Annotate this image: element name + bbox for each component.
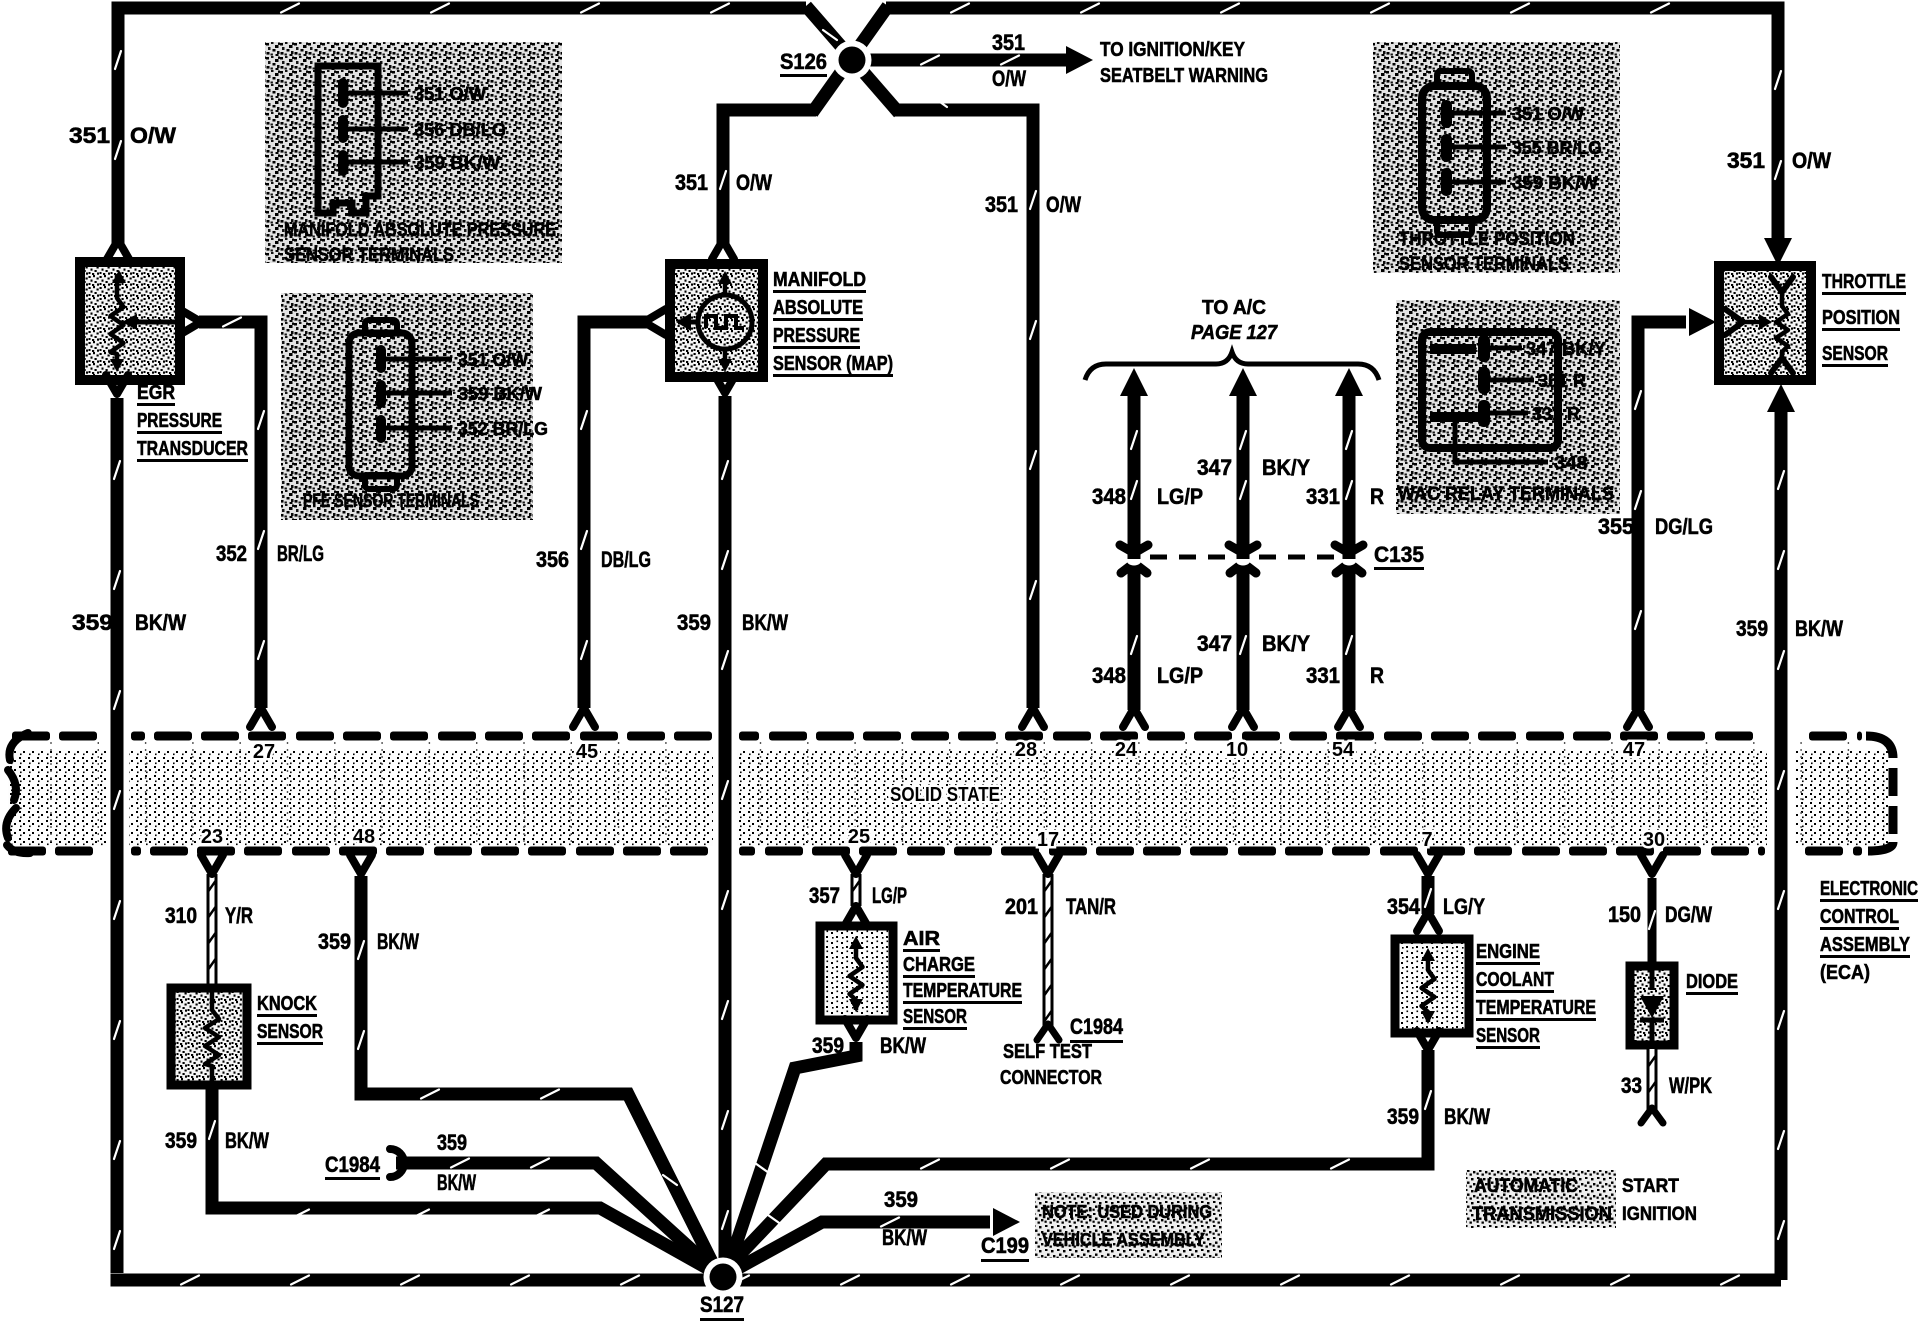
WAC relay labels: [1526, 339, 1606, 473]
svg-text:28: 28: [1015, 739, 1037, 761]
labels 359 BK/W pin48 wire: [318, 929, 419, 954]
engine coolant temperature sensor box: [1395, 939, 1469, 1033]
arrowhead 351 into TPS top: [1764, 238, 1792, 266]
svg-text:351 O/W: 351 O/W: [1512, 104, 1584, 124]
fork 354 at ECT sensor top: [1417, 912, 1439, 931]
svg-text:359: 359: [812, 1033, 844, 1058]
svg-text:331: 331: [1306, 663, 1340, 688]
wire 351 from S126 down to ECA pin 28: [895, 97, 1036, 708]
svg-text:S126: S126: [780, 49, 827, 74]
label START IGNITION: [1622, 1176, 1697, 1225]
ECA band left break: [6, 733, 30, 853]
labels 348 LG/P upper: [1092, 484, 1203, 509]
svg-text:W/PK: W/PK: [1669, 1073, 1712, 1098]
wire 348 to A/C (up arrow): [1131, 396, 1137, 710]
svg-text:LG/P: LG/P: [872, 883, 907, 908]
label TO A/C PAGE 127: [1191, 297, 1278, 344]
svg-text:359: 359: [1736, 616, 1768, 641]
svg-text:SOLID STATE: SOLID STATE: [890, 784, 1000, 806]
svg-text:C1984: C1984: [325, 1152, 381, 1177]
wire 351 from S126 to MAP sensor: [720, 110, 816, 244]
wire 357 air charge temp (thin): [853, 874, 860, 906]
svg-text:PRESSURE: PRESSURE: [773, 325, 860, 347]
svg-text:SENSOR TERMINALS: SENSOR TERMINALS: [1399, 254, 1569, 275]
svg-text:THROTTLE POSITION: THROTTLE POSITION: [1399, 229, 1575, 250]
note box: USED DURING VEHICLE ASSEMBLY: [1035, 1192, 1222, 1258]
svg-text:BK/W: BK/W: [225, 1128, 269, 1153]
svg-text:DIODE: DIODE: [1686, 971, 1738, 993]
labels 359 BK/W MAP wire: [677, 610, 788, 635]
svg-text:SENSOR: SENSOR: [1476, 1025, 1540, 1047]
wire 359 from TPS bottom through ECA to bottom bus: [1778, 410, 1784, 1280]
labels 359 BK/W at ACT: [812, 1033, 926, 1058]
svg-text:PFE SENSOR TERMINALS: PFE SENSOR TERMINALS: [303, 491, 479, 512]
svg-text:359 BK/W: 359 BK/W: [1512, 173, 1598, 193]
labels 351 O/W pin28 wire: [985, 192, 1081, 217]
svg-text:C135: C135: [1374, 542, 1424, 567]
svg-text:NOTE: USED DURING: NOTE: USED DURING: [1042, 1202, 1212, 1222]
S126 X crossing wires: [806, 6, 899, 113]
svg-text:Y/R: Y/R: [225, 903, 253, 928]
wire 359 from ECT sensor to S127: [729, 1050, 1431, 1266]
svg-text:LG/Y: LG/Y: [1443, 894, 1485, 919]
label KNOCK SENSOR: [257, 993, 323, 1045]
svg-text:THROTTLE: THROTTLE: [1822, 271, 1906, 293]
fork at MAP left: [644, 309, 666, 335]
svg-text:331 R: 331 R: [1532, 404, 1580, 424]
wire 352 from EGR to ECA pin 27: [199, 318, 264, 709]
svg-text:25: 25: [848, 826, 870, 848]
svg-text:MANIFOLD ABSOLUTE PRESSURE: MANIFOLD ABSOLUTE PRESSURE: [284, 220, 556, 241]
wire 351 top bus right segment with corner down to TPS: [886, 4, 1781, 241]
wire 359 EGR to bottom bus and bus to S127/right corner: [111, 398, 1782, 1285]
fork at pin 24: [1123, 708, 1145, 727]
ECA band vertical seam dots: [51, 742, 1848, 847]
inset: WAC relay terminals box: [1396, 300, 1620, 514]
caption MANIFOLD ABSOLUTE PRESSURE SENSOR TERMINALS: [284, 220, 556, 266]
wire 201 self test connector (thin): [1045, 874, 1052, 1026]
svg-text:COOLANT: COOLANT: [1476, 969, 1554, 991]
labels 331 R upper: [1306, 484, 1384, 509]
labels 347 BK/Y upper: [1197, 455, 1310, 480]
manifold absolute pressure sensor (MAP) box: [670, 264, 763, 377]
svg-text:TO IGNITION/KEY: TO IGNITION/KEY: [1100, 39, 1246, 61]
svg-text:352: 352: [216, 541, 247, 566]
svg-text:MANIFOLD: MANIFOLD: [773, 269, 866, 291]
splice S127: [704, 1258, 743, 1297]
wire 359 from ACT sensor to S127: [727, 1042, 856, 1271]
svg-text:PRESSURE: PRESSURE: [137, 410, 222, 432]
wire 347 to A/C (up arrow): [1240, 396, 1246, 710]
svg-text:DB/LG: DB/LG: [601, 547, 651, 572]
wire 359 branch from S127 to C199: [733, 1218, 990, 1272]
svg-text:24: 24: [1115, 739, 1138, 761]
svg-text:O/W: O/W: [1046, 192, 1081, 217]
fork at wire 33 end: [1641, 1108, 1663, 1123]
PFE terminals labels: [458, 350, 548, 439]
svg-text:359: 359: [677, 610, 711, 635]
svg-text:O/W: O/W: [992, 66, 1026, 91]
svg-text:BK/W: BK/W: [377, 929, 419, 954]
fork 355 at pin 47: [1627, 708, 1649, 727]
svg-text:WAC RELAY TERMINALS: WAC RELAY TERMINALS: [1398, 484, 1614, 505]
svg-text:BR/LG: BR/LG: [277, 541, 324, 566]
svg-text:27: 27: [253, 741, 275, 763]
svg-text:150: 150: [1608, 902, 1641, 927]
label THROTTLE POSITION SENSOR: [1822, 271, 1906, 367]
brace TO A/C: [1085, 352, 1379, 380]
fork 354 at pin 7: [1417, 855, 1439, 874]
C135 dashed link line: [1150, 555, 1334, 560]
labels 348 LG/P lower: [1092, 663, 1203, 688]
fork 359 below MAP: [714, 374, 736, 393]
inset: throttle position sensor terminals box: [1373, 42, 1620, 273]
wire 33 below diode (thin): [1649, 1049, 1656, 1112]
svg-text:SENSOR: SENSOR: [1822, 343, 1888, 365]
svg-text:AIR: AIR: [903, 928, 941, 950]
label SELF TEST CONNECTOR: [1000, 1041, 1102, 1089]
fork at pin 10: [1232, 708, 1254, 727]
inset: MAP sensor terminals box: [265, 42, 562, 263]
fork 359 below ACT sensor: [845, 1019, 867, 1038]
svg-text:BK/W: BK/W: [880, 1033, 926, 1058]
svg-text:359: 359: [1387, 1104, 1419, 1129]
svg-text:DG/LG: DG/LG: [1655, 514, 1713, 539]
svg-text:33: 33: [1621, 1073, 1642, 1098]
svg-text:356 DB/LG: 356 DB/LG: [414, 120, 506, 140]
svg-text:354: 354: [1387, 894, 1421, 919]
fork 357 at pin 25: [845, 855, 867, 874]
fork 352 at pin 27: [250, 708, 272, 727]
svg-text:347: 347: [1197, 631, 1232, 656]
connector C135 on wire 1243: [1229, 545, 1257, 573]
svg-text:C1984: C1984: [1070, 1014, 1124, 1039]
svg-text:359: 359: [72, 610, 113, 635]
fork 359 below ECT sensor: [1417, 1031, 1439, 1050]
svg-text:355: 355: [1598, 514, 1634, 539]
svg-text:348: 348: [1092, 484, 1126, 509]
labels 359 BK/W at ECT: [1387, 1104, 1490, 1129]
labels 359 BK/W knock wire: [165, 1128, 269, 1153]
svg-text:351: 351: [992, 30, 1025, 55]
svg-text:ELECTRONIC: ELECTRONIC: [1820, 878, 1918, 900]
labels 359 BK/W EGR wire: [72, 610, 186, 635]
svg-text:10: 10: [1226, 739, 1248, 761]
fork 351 at MAP top: [712, 240, 734, 259]
fork at pin 54: [1338, 708, 1360, 727]
svg-text:ASSEMBLY: ASSEMBLY: [1820, 934, 1911, 956]
inset: PFE sensor terminals box: [281, 293, 533, 520]
splice S126: [833, 41, 872, 80]
svg-text:SENSOR (MAP): SENSOR (MAP): [773, 353, 893, 375]
wire 359 knock sensor to S127: [209, 1082, 714, 1272]
ECA band top dashed border: [12, 732, 1862, 741]
svg-text:BK/W: BK/W: [437, 1170, 476, 1195]
svg-text:TEMPERATURE: TEMPERATURE: [1476, 997, 1596, 1019]
svg-text:310: 310: [165, 903, 197, 928]
svg-text:CHARGE: CHARGE: [903, 954, 975, 976]
svg-text:START: START: [1622, 1176, 1679, 1197]
labels 355 DG/LG: [1598, 514, 1713, 539]
svg-text:KNOCK: KNOCK: [257, 993, 317, 1015]
labels 351 O/W TPS wire: [1727, 148, 1831, 173]
svg-text:351: 351: [1727, 148, 1765, 173]
svg-text:359 BK/W: 359 BK/W: [414, 153, 500, 173]
svg-text:O/W: O/W: [736, 170, 772, 195]
svg-text:EGR: EGR: [137, 382, 175, 404]
labels 359 BK/W TPS wire: [1736, 616, 1843, 641]
TPS terminals connector drawing: [1422, 71, 1506, 235]
svg-text:C199: C199: [981, 1233, 1029, 1258]
connector C135 on wire 1349: [1335, 545, 1363, 573]
svg-text:BK/Y: BK/Y: [1262, 631, 1310, 656]
wire 150 diode (medium): [1649, 878, 1655, 964]
svg-text:54: 54: [1332, 739, 1355, 761]
arrowhead 359 into TPS bottom: [1767, 384, 1795, 412]
svg-text:POSITION: POSITION: [1822, 307, 1900, 329]
svg-text:331: 331: [1306, 484, 1340, 509]
svg-text:359: 359: [884, 1187, 918, 1212]
fork 310 at pin 23: [201, 855, 223, 874]
svg-text:359: 359: [165, 1128, 197, 1153]
svg-text:359 BK/W: 359 BK/W: [458, 384, 542, 404]
TPS terminals labels: [1512, 104, 1602, 193]
labels 150 DG/W: [1608, 902, 1712, 927]
label S127: [700, 1292, 744, 1321]
wire 356 from MAP to ECA pin 45: [581, 322, 651, 708]
fork 357 at ACT sensor top: [845, 906, 867, 925]
labels 310 Y/R: [165, 903, 253, 928]
svg-text:359: 359: [437, 1130, 467, 1155]
label TO IGNITION/KEY SEATBELT WARNING: [1100, 39, 1268, 87]
label DIODE: [1686, 971, 1738, 995]
PFE terminals connector drawing: [349, 320, 452, 489]
labels 351 O/W left EGR wire: [69, 123, 176, 148]
svg-text:CONTROL: CONTROL: [1820, 906, 1899, 928]
label S126: [780, 49, 827, 77]
ECA solid state band (grey fill): [8, 725, 1890, 866]
wire 351 arrow to ignition/key seatbelt warning: [860, 46, 1093, 74]
svg-text:BK/Y: BK/Y: [1262, 455, 1310, 480]
knock sensor box: [171, 988, 247, 1085]
labels 351 O/W MAP wire: [675, 170, 772, 195]
fork 150 at pin 30: [1641, 855, 1663, 874]
svg-text:AUTOMATIC: AUTOMATIC: [1474, 1176, 1578, 1197]
label ELECTRONIC CONTROL ASSEMBLY (ECA): [1820, 878, 1918, 984]
labels 331 R lower: [1306, 663, 1384, 688]
svg-text:356: 356: [536, 547, 569, 572]
caption THROTTLE POSITION SENSOR TERMINALS: [1399, 229, 1575, 275]
svg-text:O/W: O/W: [130, 123, 176, 148]
svg-text:351: 351: [69, 123, 110, 148]
connector C135 on wire 1134: [1120, 545, 1148, 573]
svg-text:BK/W: BK/W: [742, 610, 788, 635]
svg-text:30: 30: [1643, 829, 1665, 851]
svg-text:ABSOLUTE: ABSOLUTE: [773, 297, 863, 319]
svg-text:SENSOR: SENSOR: [257, 1021, 323, 1043]
svg-text:47: 47: [1623, 739, 1645, 761]
label C199: [981, 1233, 1029, 1262]
MAP terminals labels: [414, 84, 506, 173]
svg-text:R: R: [1370, 484, 1384, 509]
wire 351 top bus left segment with corner down to EGR: [115, 4, 806, 247]
svg-text:SENSOR TERMINALS: SENSOR TERMINALS: [284, 245, 454, 266]
labels 357 LG/P: [809, 883, 907, 908]
svg-text:DG/W: DG/W: [1665, 902, 1712, 927]
svg-text:(ECA): (ECA): [1820, 962, 1870, 984]
svg-text:352 BR/LG: 352 BR/LG: [458, 419, 548, 439]
throttle position sensor box: [1719, 266, 1811, 380]
labels 347 BK/Y lower: [1197, 631, 1310, 656]
labels 359 BK/W C199 wire: [882, 1187, 927, 1250]
svg-text:357: 357: [809, 883, 840, 908]
svg-text:ENGINE: ENGINE: [1476, 941, 1540, 963]
wire 331 to A/C (up arrow): [1346, 396, 1352, 710]
label AIR CHARGE TEMPERATURE SENSOR: [903, 928, 1022, 1030]
WAC relay drawing: [1422, 332, 1558, 462]
fork at pin 48: [350, 855, 372, 874]
svg-text:359: 359: [318, 929, 351, 954]
svg-text:351 O/W: 351 O/W: [458, 350, 528, 370]
note box: AUTOMATIC TRANSMISSION: [1466, 1170, 1616, 1228]
air charge temperature sensor box: [820, 926, 893, 1020]
label C1984 (left): [325, 1152, 381, 1180]
svg-text:351: 351: [985, 192, 1018, 217]
EGR pressure transducer box: [80, 262, 180, 380]
svg-text:TAN/R: TAN/R: [1066, 894, 1116, 919]
svg-text:S127: S127: [700, 1292, 744, 1317]
labels 201 TAN/R: [1005, 894, 1116, 919]
ECA band bottom dashed border: [8, 847, 1862, 856]
svg-text:355 BR/LG: 355 BR/LG: [1512, 138, 1602, 158]
labels 351 O/W at seatbelt arrow: [992, 30, 1026, 91]
wire 359 from MAP down to splice S127: [722, 396, 728, 1270]
svg-text:TRANSMISSION: TRANSMISSION: [1472, 1204, 1612, 1225]
svg-text:351 O/W: 351 O/W: [414, 84, 486, 104]
svg-text:VEHICLE ASSEMBLY: VEHICLE ASSEMBLY: [1042, 1230, 1205, 1250]
ECA band dashed right corner: [1866, 736, 1893, 851]
svg-text:LG/P: LG/P: [1157, 484, 1203, 509]
svg-text:PAGE 127: PAGE 127: [1191, 322, 1278, 344]
svg-text:351 R: 351 R: [1538, 371, 1586, 391]
svg-text:348: 348: [1092, 663, 1126, 688]
labels 359 BK/W C1984 wire: [437, 1130, 476, 1195]
arrowhead 355 into TPS: [1689, 308, 1716, 336]
svg-text:O/W: O/W: [1792, 148, 1831, 173]
svg-text:17: 17: [1037, 829, 1059, 851]
svg-text:TO A/C: TO A/C: [1202, 297, 1266, 319]
connector C1984 half-symbol and wire 359 to S127: [390, 1149, 715, 1271]
svg-text:7: 7: [1421, 829, 1432, 851]
svg-text:CONNECTOR: CONNECTOR: [1000, 1067, 1102, 1089]
svg-text:45: 45: [576, 741, 598, 763]
svg-text:BK/W: BK/W: [1795, 616, 1843, 641]
svg-text:347: 347: [1197, 455, 1232, 480]
svg-text:SENSOR: SENSOR: [903, 1006, 967, 1028]
svg-text:347 BK/Y: 347 BK/Y: [1526, 339, 1606, 359]
wire 355 from TPS wiper to ECA pin 47: [1635, 322, 1686, 710]
svg-text:TEMPERATURE: TEMPERATURE: [903, 980, 1022, 1002]
svg-text:BK/W: BK/W: [882, 1225, 927, 1250]
fork 356 at pin 45: [573, 708, 595, 727]
svg-text:BK/W: BK/W: [135, 610, 186, 635]
label ENGINE COOLANT TEMPERATURE SENSOR: [1476, 941, 1596, 1049]
svg-text:R: R: [1370, 663, 1384, 688]
svg-text:201: 201: [1005, 894, 1038, 919]
svg-text:SEATBELT WARNING: SEATBELT WARNING: [1100, 65, 1268, 87]
fork 351 at pin 28: [1022, 708, 1044, 727]
fork at self test connector end: [1037, 1024, 1059, 1040]
svg-text:LG/P: LG/P: [1157, 663, 1203, 688]
label MANIFOLD ABSOLUTE PRESSURE SENSOR (MAP): [773, 269, 893, 377]
svg-text:TRANSDUCER: TRANSDUCER: [137, 438, 248, 460]
wire 359 from ECA pin 48 to S127: [358, 876, 716, 1270]
svg-text:SELF TEST: SELF TEST: [1003, 1041, 1092, 1063]
svg-text:23: 23: [201, 826, 223, 848]
diode box: [1630, 966, 1674, 1045]
fork 201 at pin 17: [1037, 855, 1059, 874]
svg-text:IGNITION: IGNITION: [1622, 1204, 1697, 1225]
fork 351 at EGR top: [107, 240, 129, 259]
wire 310 knock sensor (thin): [209, 874, 216, 990]
MAP terminals connector drawing: [318, 66, 408, 213]
label EGR PRESSURE TRANSDUCER: [137, 382, 248, 462]
svg-text:48: 48: [353, 826, 375, 848]
labels 352 BR/LG: [216, 541, 324, 566]
label C1984 self test: [1070, 1014, 1124, 1043]
label C135: [1374, 542, 1424, 570]
wire 354 engine coolant temp: [1425, 876, 1431, 914]
labels 356 DB/LG: [536, 547, 651, 572]
fork 359 below EGR: [106, 375, 128, 394]
labels 33 W/PK: [1621, 1073, 1712, 1098]
labels 354 LG/Y: [1387, 894, 1485, 919]
svg-text:BK/W: BK/W: [1444, 1104, 1490, 1129]
svg-text:348: 348: [1554, 453, 1588, 473]
svg-text:351: 351: [675, 170, 708, 195]
fork at EGR right: [179, 309, 201, 335]
